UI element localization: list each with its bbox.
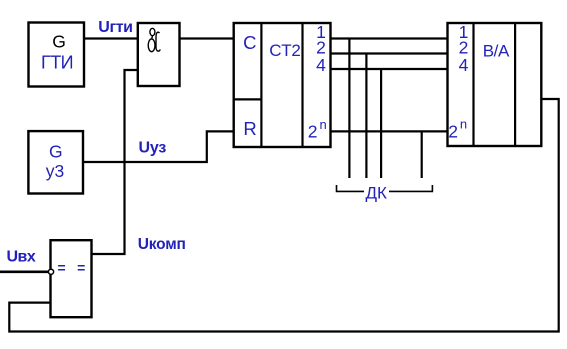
wire bus bit 4: CT2 to В/А (331, 68, 448, 70)
wire Uвх input to comparator (0, 270, 48, 273)
comparator DA1 (48, 240, 91, 317)
svg-text:4: 4 (459, 55, 469, 75)
AND gate DD1 (138, 23, 180, 86)
svg-text:=: = (58, 259, 66, 275)
svg-text:Uкомп: Uкомп (138, 236, 186, 253)
wire В/А output feedback to comparator (9, 99, 558, 332)
svg-text:G: G (52, 31, 66, 51)
svg-text:2: 2 (448, 121, 458, 141)
svg-text:Uвх: Uвх (7, 248, 36, 265)
counter CT2 (234, 22, 331, 147)
svg-text:В/А: В/А (483, 42, 510, 61)
svg-text:4: 4 (316, 55, 326, 75)
DAC В/А (448, 22, 542, 146)
svg-text:C: C (243, 32, 256, 53)
net Uвх label (7, 248, 36, 265)
svg-text:ДК: ДК (365, 184, 387, 203)
svg-text:R: R (243, 118, 256, 139)
generator G2 УЗ (28, 131, 83, 193)
svg-text:Uуз: Uуз (139, 139, 167, 156)
wire tap from bit 2 down to ДК (365, 54, 367, 179)
wire tap from bit 1 down to ДК (348, 39, 350, 179)
net Uуз label (139, 139, 167, 156)
svg-text:G: G (49, 142, 63, 162)
wire tap from bit 2^n down to ДК (421, 131, 423, 178)
net Uкомп label (138, 236, 186, 253)
svg-text:n: n (319, 117, 326, 132)
wire tap from bit 4 down to ДК (380, 69, 382, 178)
wire Uгти: ГТИ output to AND gate input (84, 37, 138, 39)
svg-text:=: = (77, 259, 85, 275)
net Uгти label (98, 19, 132, 36)
svg-text:n: n (460, 117, 467, 132)
bracket ДК (decoder group brace) (337, 184, 433, 203)
wire bus bit 1: CT2 to В/А (331, 37, 448, 39)
wire bus bit 2: CT2 to В/А (331, 52, 448, 54)
wire AND output to counter C input (180, 37, 235, 39)
svg-text:у3: у3 (46, 161, 64, 181)
svg-text:Uгти: Uгти (98, 19, 132, 36)
wire bus bit 2^n: CT2 to В/А (331, 130, 448, 132)
svg-text:2: 2 (308, 121, 318, 141)
wire Uуз: УЗ output to CT2 R input (83, 131, 234, 162)
generator G1 ГТИ (29, 23, 85, 87)
wire comparator output Uкомп to AND gate input (92, 70, 138, 254)
svg-text:CT2: CT2 (269, 41, 300, 60)
svg-text:ГТИ: ГТИ (41, 53, 73, 73)
